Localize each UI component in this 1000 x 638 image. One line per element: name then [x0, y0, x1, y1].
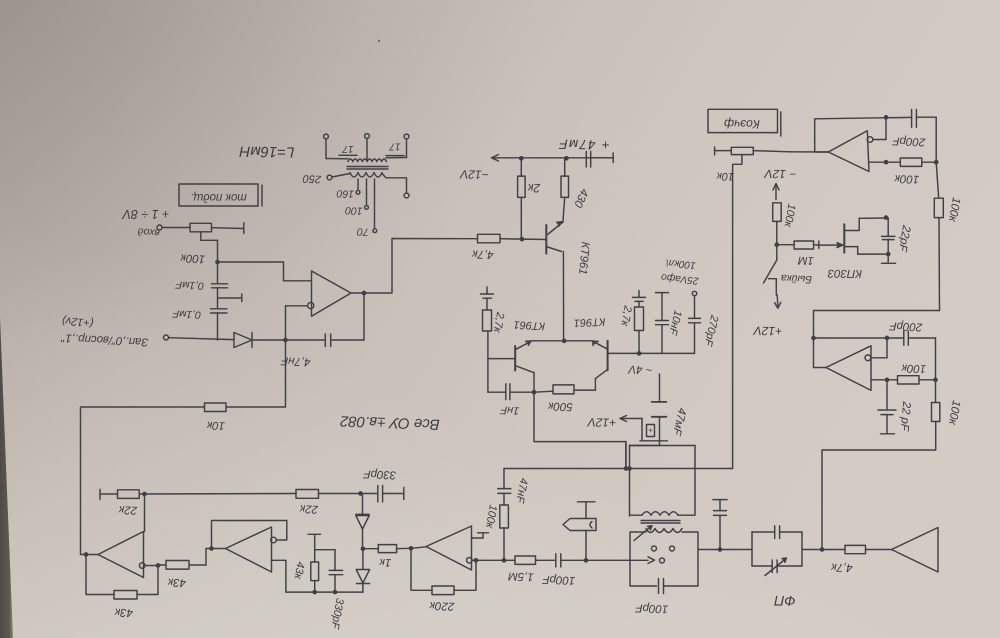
svg-text:Коэчф: Коэчф — [724, 117, 760, 132]
svg-text:~ 4V: ~ 4V — [627, 363, 653, 375]
svg-text:+ 47мF: + 47мF — [558, 137, 610, 153]
svg-text:160: 160 — [336, 187, 354, 200]
svg-text:0,1мF: 0,1мF — [172, 307, 201, 320]
svg-text:Все ОУ ±в.082: Все ОУ ±в.082 — [339, 412, 440, 432]
svg-text:1к: 1к — [379, 556, 392, 568]
svg-text:КТ961: КТ961 — [574, 315, 606, 329]
svg-text:+: + — [648, 426, 653, 435]
svg-text:100pF: 100pF — [634, 601, 668, 614]
svg-text:КП303: КП303 — [827, 267, 862, 280]
svg-text:200pF: 200pF — [888, 319, 923, 332]
svg-text:330pF: 330pF — [362, 467, 396, 480]
svg-text:1,5М: 1,5М — [508, 570, 534, 583]
svg-text:+12V: +12V — [753, 324, 783, 339]
svg-text:0,1мF: 0,1мF — [175, 278, 204, 291]
svg-text:17: 17 — [389, 141, 401, 152]
svg-text:вход: вход — [137, 225, 160, 239]
svg-text:43к: 43к — [167, 576, 186, 589]
svg-text:ток подщ.: ток подщ. — [190, 191, 247, 203]
svg-text:4,7к: 4,7к — [471, 247, 494, 260]
svg-text:10к: 10к — [716, 170, 735, 183]
svg-text:500к: 500к — [547, 400, 573, 413]
svg-text:Быйка: Быйка — [780, 272, 812, 286]
svg-text:100к: 100к — [894, 172, 920, 185]
svg-text:КТ961: КТ961 — [513, 318, 545, 332]
svg-text:22к: 22к — [299, 502, 319, 515]
svg-text:100pF: 100pF — [541, 573, 575, 586]
svg-text:250: 250 — [302, 172, 323, 185]
svg-text:−12V: −12V — [459, 167, 489, 182]
svg-text:L=16мH: L=16мH — [239, 143, 294, 161]
svg-text:+12V: +12V — [587, 415, 617, 430]
svg-text:2к: 2к — [526, 181, 541, 195]
svg-text:200pF: 200pF — [891, 134, 926, 147]
svg-text:43к: 43к — [114, 606, 133, 619]
svg-text:220к: 220к — [429, 599, 456, 612]
svg-text:100к: 100к — [901, 362, 927, 375]
svg-text:+ 1 ÷ 8V: + 1 ÷ 8V — [121, 207, 169, 221]
svg-text:1нF: 1нF — [499, 403, 520, 416]
svg-text:10к: 10к — [206, 419, 225, 432]
svg-text:17: 17 — [342, 143, 354, 154]
svg-text:− 12V: − 12V — [763, 167, 796, 182]
svg-text:100к: 100к — [180, 251, 206, 264]
svg-text:4,7к: 4,7к — [830, 561, 852, 574]
svg-text:1М: 1М — [797, 254, 814, 267]
svg-text:ФП: ФП — [773, 593, 795, 609]
svg-text:4,7нF: 4,7нF — [280, 354, 311, 368]
svg-text:100: 100 — [345, 204, 363, 217]
svg-text:70: 70 — [357, 225, 369, 237]
svg-text:22к: 22к — [118, 503, 138, 516]
